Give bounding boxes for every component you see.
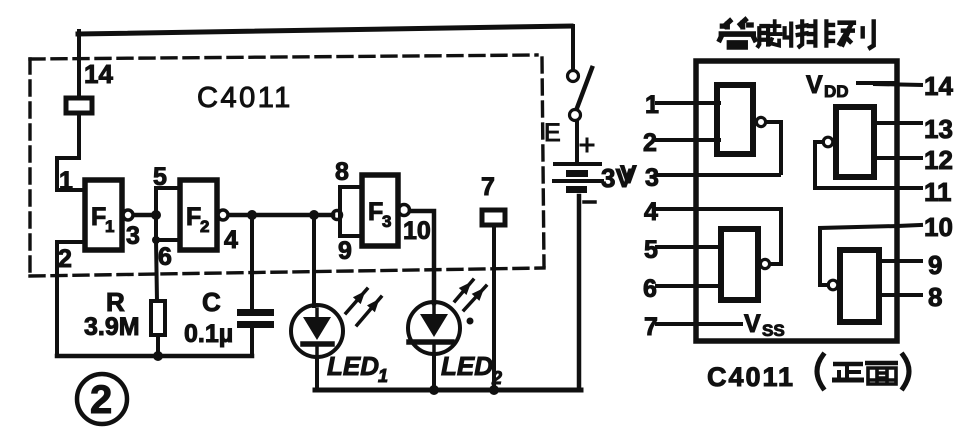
svg-text:14: 14 bbox=[924, 71, 953, 101]
pin 7 lead bbox=[657, 322, 741, 326]
pin 12 number bbox=[924, 145, 953, 175]
pinout title guan jiao pai lie bbox=[719, 18, 874, 49]
pin 6 lead bbox=[657, 284, 719, 288]
pin 14 lead bbox=[875, 84, 921, 85]
pin 4 number bbox=[644, 198, 658, 226]
svg-text:LED: LED bbox=[441, 351, 493, 381]
label LED2 bbox=[441, 351, 502, 388]
svg-text:V: V bbox=[744, 310, 761, 338]
svg-text:F: F bbox=[186, 203, 201, 231]
wire LED1 to ground rail bbox=[315, 357, 319, 390]
label 3V bbox=[601, 163, 633, 193]
svg-text:1: 1 bbox=[105, 217, 114, 236]
svg-text:4: 4 bbox=[224, 226, 238, 254]
junction LED2 ground bbox=[429, 385, 439, 395]
label fullwidth left paren bbox=[817, 355, 823, 388]
svg-text:11: 11 bbox=[924, 177, 952, 207]
pin 1 number bbox=[645, 91, 659, 119]
pin 13 number bbox=[924, 114, 953, 144]
wire node to F2 input 6 and resistor bbox=[152, 215, 180, 301]
wire F1 input 2 to RC node bbox=[57, 242, 83, 356]
pin 1 label bbox=[59, 167, 73, 195]
pin 5 number bbox=[644, 236, 658, 264]
switch S bottom contact bbox=[570, 110, 581, 121]
svg-text:3: 3 bbox=[382, 212, 391, 231]
wire capacitor to RC rail bbox=[250, 327, 254, 356]
pin 11 lead bbox=[815, 186, 921, 190]
svg-text:3.9M: 3.9M bbox=[84, 313, 140, 341]
svg-text:14: 14 bbox=[84, 59, 113, 89]
label E battery bbox=[544, 119, 561, 147]
stray mark V left of pinout bbox=[620, 161, 637, 189]
pin 7 number bbox=[644, 313, 658, 341]
LED1 bbox=[291, 305, 343, 357]
pin 5 label bbox=[153, 163, 167, 191]
svg-text:0.1µ: 0.1µ bbox=[184, 320, 233, 348]
pin 8 number bbox=[928, 282, 942, 312]
pin 11 number bbox=[924, 177, 952, 207]
svg-text:13: 13 bbox=[924, 114, 953, 144]
pin 4 label bbox=[224, 226, 238, 254]
label F3 bbox=[368, 198, 391, 231]
char jiao bbox=[757, 19, 791, 47]
gate C pins 5 6 4 bbox=[721, 229, 758, 300]
gate A output bubble bbox=[756, 117, 765, 126]
char zheng bbox=[832, 364, 864, 380]
svg-text:2: 2 bbox=[643, 129, 657, 157]
junction F2 input node bbox=[151, 210, 161, 220]
gate B output bubble bbox=[823, 137, 833, 147]
gate C output wire to pin 4 bbox=[770, 209, 781, 264]
battery E 3V bbox=[554, 164, 602, 193]
wire bottom ground rail bbox=[315, 388, 581, 393]
svg-text:V: V bbox=[620, 161, 637, 189]
pin 6 number bbox=[643, 275, 657, 303]
pin 9 label bbox=[338, 237, 352, 265]
label LED1 bbox=[327, 351, 388, 386]
label VSS bbox=[744, 310, 785, 340]
svg-text:10: 10 bbox=[403, 217, 431, 245]
pin 7 label bbox=[481, 173, 495, 201]
svg-text:V: V bbox=[806, 71, 823, 99]
pin 2 label bbox=[58, 245, 72, 273]
pin 14 terminal box bbox=[66, 98, 92, 113]
gate D output wire to pin 10 bbox=[820, 226, 897, 285]
svg-text:F: F bbox=[91, 203, 106, 231]
svg-text:1: 1 bbox=[645, 91, 659, 119]
wire switch to battery bbox=[575, 121, 579, 163]
svg-text:C4011: C4011 bbox=[197, 82, 293, 114]
gate F2 bbox=[180, 180, 217, 250]
svg-text:1: 1 bbox=[59, 167, 73, 195]
LED1 light arrows bbox=[346, 289, 381, 325]
svg-text:12: 12 bbox=[924, 145, 953, 175]
pin 14 number bbox=[924, 71, 953, 101]
svg-text:5: 5 bbox=[644, 236, 658, 264]
pin 6 label bbox=[158, 243, 172, 271]
gate B output wire to pin 11 bbox=[815, 142, 823, 188]
svg-text:7: 7 bbox=[644, 313, 658, 341]
F3 output bubble pin 10 bbox=[399, 205, 410, 216]
pin 8 label bbox=[335, 158, 349, 186]
pin 9 number bbox=[928, 250, 942, 280]
F3 input bubble node bbox=[333, 211, 342, 220]
wire pin14 to F1 input 1 bbox=[57, 115, 83, 190]
wire battery negative down bbox=[577, 196, 582, 390]
junction LED1 node bbox=[309, 210, 319, 220]
wire to capacitor bbox=[250, 215, 254, 309]
label C bbox=[202, 287, 221, 317]
pin 13 lead bbox=[874, 121, 921, 125]
pin 5 lead bbox=[657, 245, 719, 249]
gate D pins 9 8 10 bbox=[840, 250, 879, 322]
figure number 2 circled bbox=[77, 374, 127, 424]
wire VDD to pin14 bbox=[858, 81, 897, 85]
svg-text:9: 9 bbox=[928, 250, 942, 280]
F1 output bubble pin 3 bbox=[123, 210, 133, 220]
svg-text:6: 6 bbox=[158, 243, 172, 271]
wire F3 out to LED2 bbox=[410, 211, 434, 303]
svg-text:2: 2 bbox=[200, 217, 209, 236]
pin 3 lead bbox=[657, 173, 779, 177]
svg-text:2: 2 bbox=[58, 245, 72, 273]
wire LED2 to ground rail bbox=[432, 354, 436, 390]
pin 9 lead bbox=[879, 259, 921, 263]
svg-text:2: 2 bbox=[90, 378, 112, 422]
pin 8 lead bbox=[879, 293, 921, 297]
svg-text:6: 6 bbox=[643, 275, 657, 303]
svg-text:DD: DD bbox=[824, 82, 849, 101]
label 0.1u bbox=[184, 320, 233, 348]
junction capacitor node bbox=[247, 210, 257, 220]
wire node to LED1 bbox=[312, 215, 316, 306]
wire F1 out to F2 in bbox=[134, 213, 156, 218]
LED2 light arrows bbox=[455, 280, 486, 310]
pin 10 number bbox=[924, 212, 953, 242]
IC C4011 dashed outline bbox=[30, 55, 544, 276]
label fullwidth right paren bbox=[903, 355, 909, 388]
switch S arm bbox=[577, 68, 592, 108]
wire RC bottom rail bbox=[57, 354, 252, 359]
resistor R 3.9M bbox=[151, 301, 165, 335]
svg-text:1: 1 bbox=[378, 366, 388, 386]
wire F3 input bracket bbox=[340, 187, 362, 236]
svg-text:LED: LED bbox=[327, 351, 379, 381]
gate A output wire to pin 3 bbox=[766, 122, 781, 173]
gate F3 bbox=[362, 175, 398, 246]
LED2 bbox=[408, 302, 460, 354]
wire F2 out to F3 in bbox=[229, 213, 333, 218]
pin 14 label bbox=[84, 59, 113, 89]
pin 4 lead bbox=[657, 207, 779, 211]
wire node to F2 input 5 bbox=[156, 188, 180, 215]
char guan bbox=[719, 18, 756, 48]
pin 3 number bbox=[645, 164, 659, 192]
switch S top contact bbox=[568, 71, 579, 82]
pin 7 terminal box bbox=[482, 210, 505, 225]
char pai bbox=[796, 19, 836, 47]
wire pin7 to ground rail bbox=[492, 227, 496, 390]
svg-text:10: 10 bbox=[924, 212, 953, 242]
svg-text:7: 7 bbox=[481, 173, 495, 201]
label - terminal bbox=[584, 200, 595, 204]
label VDD bbox=[806, 71, 849, 101]
F2 output bubble pin 4 bbox=[218, 210, 228, 220]
svg-text:C: C bbox=[202, 287, 221, 317]
svg-text:8: 8 bbox=[928, 282, 942, 312]
label F1 bbox=[91, 203, 114, 236]
svg-text:8: 8 bbox=[335, 158, 349, 186]
gate C output bubble bbox=[760, 259, 769, 268]
gate A pins 1 2 3 bbox=[717, 85, 753, 154]
pin 2 lead bbox=[657, 138, 719, 142]
svg-text:F: F bbox=[368, 198, 383, 226]
junction R rail bbox=[153, 351, 163, 361]
svg-text:3: 3 bbox=[645, 164, 659, 192]
label + terminal bbox=[581, 139, 593, 151]
pin 10 label bbox=[403, 217, 431, 245]
char mian bbox=[865, 363, 898, 384]
svg-text:SS: SS bbox=[762, 321, 785, 340]
capacitor C 0.1u bbox=[237, 309, 274, 328]
wire top rail to pin14 bbox=[77, 31, 81, 95]
pin 10 lead bbox=[897, 225, 921, 226]
junction pin7 ground bbox=[489, 385, 499, 395]
label C4011 bbox=[197, 82, 293, 114]
pin 1 lead bbox=[657, 101, 719, 105]
pin 2 number bbox=[643, 129, 657, 157]
label C4011 front view bbox=[707, 362, 795, 392]
wire top positive rail bbox=[78, 26, 571, 34]
svg-text:E: E bbox=[544, 119, 561, 147]
svg-text:C4011: C4011 bbox=[707, 362, 795, 392]
DIP package outline bbox=[696, 61, 897, 341]
LED2 dot mark bbox=[467, 318, 474, 325]
pin 3 label bbox=[126, 222, 140, 250]
wire resistor to rail bbox=[156, 335, 160, 356]
label F2 bbox=[186, 203, 209, 236]
char lie bbox=[837, 19, 873, 49]
gate D output bubble bbox=[828, 280, 838, 290]
svg-text:9: 9 bbox=[338, 237, 352, 265]
label 3.9M bbox=[84, 313, 140, 341]
wire rail to switch bbox=[571, 26, 575, 69]
label R bbox=[106, 287, 125, 317]
svg-text:3: 3 bbox=[126, 222, 140, 250]
gate B pins 13 12 11 bbox=[836, 107, 874, 177]
svg-text:4: 4 bbox=[644, 198, 658, 226]
pin 12 lead bbox=[874, 156, 921, 160]
gate F1 bbox=[85, 180, 122, 250]
